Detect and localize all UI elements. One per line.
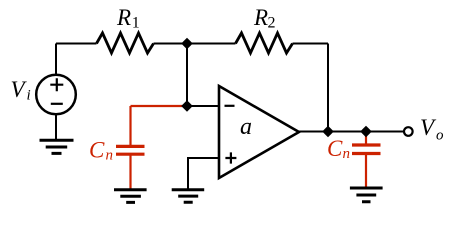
- svg-text:C: C: [327, 136, 343, 161]
- svg-text:1: 1: [132, 15, 140, 32]
- svg-text:2: 2: [268, 15, 276, 32]
- svg-text:R: R: [253, 5, 268, 30]
- svg-text:o: o: [436, 128, 444, 144]
- svg-text:n: n: [343, 146, 351, 162]
- svg-text:a: a: [240, 114, 252, 140]
- svg-text:R: R: [116, 5, 131, 30]
- svg-text:n: n: [106, 148, 114, 164]
- svg-text:i: i: [27, 88, 31, 104]
- svg-text:C: C: [89, 138, 105, 163]
